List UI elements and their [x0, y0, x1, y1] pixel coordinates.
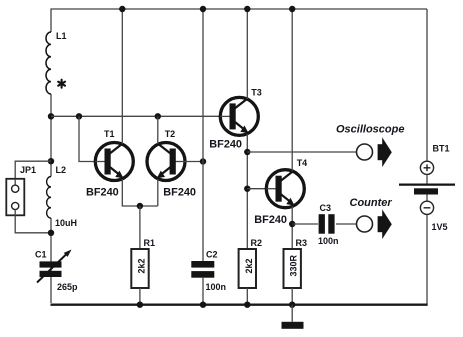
svg-text:BF240: BF240 [163, 187, 196, 199]
resistor R2 [239, 249, 256, 288]
svg-text:C1: C1 [35, 250, 47, 260]
transistor T2 (mirrored) [147, 143, 185, 181]
svg-text:BF240: BF240 [209, 139, 242, 151]
node junction C2 bottom [200, 302, 206, 308]
svg-text:L1: L1 [56, 31, 67, 41]
node junction T4 base [244, 186, 250, 192]
node junction T1 collector at top rail [119, 6, 125, 12]
inductor L2 [47, 177, 51, 219]
svg-text:1V5: 1V5 [432, 222, 448, 232]
wire T3 collector [246, 9, 248, 99]
wire R1 to bottom rail [139, 288, 141, 305]
capacitor C2 [191, 261, 214, 278]
node junction T1 base branch [76, 113, 82, 119]
battery BT1 [399, 161, 455, 214]
node junction L2 top / JP1 [48, 158, 54, 164]
transistor T1 [95, 143, 133, 181]
wire T3 emitter down to R2 [246, 134, 248, 249]
transistor T4 [266, 170, 304, 208]
wire T2 emitter down [157, 179, 159, 206]
wire T4 base [247, 188, 266, 190]
node junction C2 line at top rail [200, 6, 206, 12]
svg-text:T4: T4 [297, 158, 308, 168]
svg-text:R2: R2 [251, 238, 263, 248]
wire T4 collector [291, 9, 293, 171]
svg-text:100n: 100n [206, 282, 227, 292]
node junction T2 base / C2 line [200, 158, 206, 164]
svg-text:BF240: BF240 [254, 214, 287, 226]
svg-text:R1: R1 [144, 238, 156, 248]
wire JP1 bottom lead [15, 215, 51, 233]
resistor R3 [284, 249, 301, 288]
resistor R1 [131, 249, 148, 288]
node junction emitters to R1 [137, 203, 143, 209]
wire C2 to bottom rail [202, 278, 204, 305]
wire C3 to counter terminal [336, 223, 357, 225]
wire T2 base [185, 161, 203, 163]
ground [282, 322, 304, 329]
svg-text:Counter: Counter [350, 197, 393, 209]
wire T2 collector [157, 116, 159, 144]
svg-text:330R: 330R [289, 254, 299, 276]
wire R3 to bottom rail [291, 288, 293, 305]
wire left rail lower (L1 bottom to C1 to bottom rail) [50, 94, 52, 177]
svg-text:265p: 265p [57, 282, 78, 292]
node junction T3 collector at top rail [244, 6, 250, 12]
wire bottom rail [51, 304, 428, 306]
svg-text:R3: R3 [296, 238, 308, 248]
svg-text:2k2: 2k2 [136, 258, 146, 273]
svg-text:L2: L2 [56, 165, 67, 175]
wire to C3 [292, 223, 318, 225]
svg-text:10uH: 10uH [55, 218, 77, 228]
svg-text:BT1: BT1 [433, 144, 450, 154]
wire right rail (battery branch lower) [426, 214, 428, 305]
node junction L1 bottom / tank rail [48, 113, 54, 119]
node junction R3 bottom / ground [289, 302, 295, 308]
svg-text:BF240: BF240 [86, 187, 119, 199]
wire T1 emitter down [122, 179, 158, 206]
svg-text:T3: T3 [251, 87, 262, 97]
svg-text:Oscilloscope: Oscilloscope [336, 124, 404, 136]
wire T1 collector [121, 9, 123, 144]
capacitor C3 [319, 214, 335, 234]
wire JP1 top lead [15, 161, 51, 179]
node junction scope tap [244, 149, 250, 155]
arrow counter output [378, 209, 392, 239]
wire tank rail y=116 to T3 base [51, 115, 221, 117]
svg-text:T2: T2 [165, 129, 176, 139]
svg-text:C3: C3 [320, 203, 332, 213]
node junction T2 collector on tank rail [155, 113, 161, 119]
node junction L2 bottom / C1 top [48, 230, 54, 236]
wire right rail (battery branch upper) [426, 9, 428, 162]
wire R2 to bottom rail [246, 288, 248, 305]
arrow oscilloscope output [378, 137, 392, 167]
svg-text:100n: 100n [318, 236, 339, 246]
node junction T4 collector at top rail [289, 6, 295, 12]
wire C2 vertical line [202, 9, 204, 262]
inductor L1 [46, 32, 51, 94]
wire to oscilloscope [247, 151, 357, 153]
wire top rail [51, 9, 427, 32]
oscilloscope terminal [357, 144, 373, 160]
node junction R1 bottom [137, 302, 143, 308]
svg-text:C2: C2 [206, 250, 218, 260]
wire T1 base branch [79, 116, 95, 161]
svg-text:JP1: JP1 [20, 165, 36, 175]
wire ground stub [291, 305, 293, 322]
node junction T4 emitter / R3 / C3 [289, 221, 295, 227]
asterisk coil mark [58, 80, 65, 88]
connector JP1 [6, 179, 24, 216]
node junction R2 bottom [244, 302, 250, 308]
transistor T3 [220, 97, 258, 135]
counter terminal [357, 216, 373, 232]
wire emitters to R1 [139, 206, 141, 249]
svg-text:T1: T1 [104, 129, 115, 139]
wire T4 emitter down [291, 206, 293, 249]
svg-text:2k2: 2k2 [244, 258, 254, 273]
capacitor C1 (variable) [37, 250, 72, 283]
